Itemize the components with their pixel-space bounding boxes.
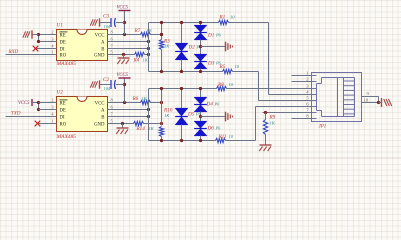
svg-text:6: 6 (306, 101, 309, 106)
svg-text:MAX485: MAX485 (56, 60, 77, 67)
svg-text:1K: 1K (164, 113, 170, 118)
svg-text:R4: R4 (133, 57, 140, 64)
svg-text:1K: 1K (270, 121, 276, 126)
svg-text:10: 10 (229, 82, 234, 87)
svg-text:9: 9 (367, 91, 370, 96)
svg-text:VCC5: VCC5 (117, 6, 129, 11)
svg-text:R6: R6 (132, 96, 139, 102)
svg-text:10: 10 (230, 15, 235, 20)
svg-text:RO: RO (60, 123, 67, 128)
svg-text:4: 4 (51, 111, 54, 116)
svg-text:8: 8 (111, 29, 113, 34)
svg-text:RE: RE (60, 34, 66, 39)
svg-text:1: 1 (51, 49, 53, 54)
svg-text:2: 2 (51, 29, 53, 34)
svg-text:4: 4 (306, 89, 309, 94)
svg-text:7: 7 (306, 107, 309, 112)
svg-text:5: 5 (111, 118, 113, 123)
svg-text:VCC: VCC (95, 102, 105, 107)
svg-text:P6: P6 (214, 102, 221, 107)
svg-text:DE: DE (60, 41, 66, 46)
svg-text:P6: P6 (215, 125, 222, 130)
svg-text:VCC5: VCC5 (117, 73, 129, 78)
svg-text:VCC: VCC (95, 34, 105, 39)
svg-text:6: 6 (111, 104, 114, 109)
svg-text:R8: R8 (217, 82, 224, 88)
svg-text:GND: GND (94, 54, 105, 59)
svg-text:3: 3 (306, 83, 309, 88)
svg-text:RE: RE (60, 102, 66, 107)
svg-text:U1: U1 (57, 23, 64, 29)
svg-text:1: 1 (306, 70, 309, 75)
svg-text:7: 7 (111, 111, 114, 116)
svg-text:10: 10 (235, 64, 240, 69)
svg-text:B: B (101, 48, 104, 53)
svg-text:DE: DE (60, 109, 66, 114)
svg-text:RO: RO (60, 54, 67, 59)
svg-text:3: 3 (51, 104, 53, 109)
svg-text:D1: D1 (207, 33, 215, 39)
svg-text:R11: R11 (218, 134, 227, 140)
svg-text:P6: P6 (215, 61, 222, 66)
svg-text:DI: DI (60, 116, 65, 121)
svg-text:1K: 1K (143, 58, 149, 63)
svg-text:U2: U2 (57, 90, 64, 96)
svg-text:R7: R7 (134, 28, 141, 34)
svg-text:TXD: TXD (11, 112, 21, 117)
svg-text:5: 5 (111, 49, 113, 54)
svg-text:D2: D2 (188, 45, 196, 51)
svg-text:8: 8 (306, 113, 309, 118)
svg-text:1: 1 (51, 118, 53, 123)
svg-text:A: A (101, 109, 105, 114)
svg-text:104: 104 (104, 24, 111, 29)
svg-text:VCC5: VCC5 (18, 101, 30, 106)
svg-text:D4: D4 (206, 101, 214, 108)
svg-text:D5: D5 (187, 112, 195, 118)
svg-text:1K: 1K (147, 28, 153, 33)
svg-text:4: 4 (51, 43, 54, 48)
svg-text:1K: 1K (142, 96, 148, 101)
svg-text:D3: D3 (207, 61, 215, 67)
svg-text:B: B (101, 116, 104, 121)
svg-text:8: 8 (111, 97, 113, 102)
svg-text:104: 104 (104, 86, 111, 91)
svg-text:2: 2 (306, 76, 309, 81)
svg-text:DI: DI (60, 48, 65, 53)
svg-text:1K: 1K (149, 126, 155, 131)
svg-text:6: 6 (111, 36, 114, 41)
svg-text:5: 5 (306, 95, 309, 100)
svg-text:C2: C2 (103, 77, 109, 83)
svg-text:3: 3 (51, 36, 53, 41)
svg-text:R1: R1 (219, 15, 226, 21)
svg-text:1K: 1K (164, 43, 170, 48)
svg-text:D6: D6 (207, 125, 215, 131)
svg-text:R14: R14 (136, 125, 146, 132)
svg-text:P6: P6 (215, 33, 222, 38)
svg-text:10: 10 (229, 134, 234, 139)
svg-text:10: 10 (364, 98, 369, 103)
svg-text:7: 7 (111, 43, 114, 48)
svg-text:JP1: JP1 (319, 125, 327, 130)
svg-text:RXD: RXD (8, 50, 19, 55)
svg-text:2: 2 (51, 97, 53, 102)
svg-text:A: A (101, 41, 105, 46)
svg-text:MAX485: MAX485 (56, 133, 77, 140)
svg-text:GND: GND (94, 123, 105, 128)
svg-text:C3: C3 (103, 14, 109, 20)
